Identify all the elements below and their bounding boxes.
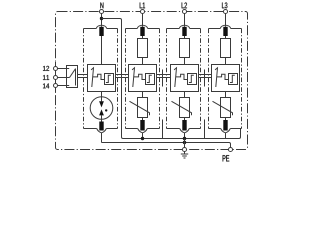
wire varistor to bottom electrode module 3 — [184, 118, 186, 121]
disconnector rect module 3 — [180, 39, 190, 58]
trigger step glyph — [147, 75, 152, 82]
spark gap top electrode arc 1 — [96, 25, 106, 28]
trigger step glyph — [230, 75, 235, 82]
module 2 (L1 varistor/spark-gap path) bottom edge segments — [126, 128, 160, 130]
module 2 (L1 varistor/spark-gap path) left side dash-dot — [125, 29, 127, 129]
terminal L3 — [223, 9, 227, 13]
module 4 (L3 varistor/spark-gap path) bottom edge segments — [209, 128, 242, 130]
bottom electrode bar module 3 — [182, 120, 186, 131]
left border solid segments between signalling terminals — [55, 62, 57, 92]
wire terminal 12 to contact box — [58, 68, 67, 70]
node earth-drop junction dot on PE line — [183, 141, 186, 144]
trigger circuit box 2 — [129, 65, 157, 92]
module 3 (L2 varistor/spark-gap path) bottom edge segments — [167, 128, 201, 130]
terminal 11 — [54, 76, 58, 80]
wire varistor to bottom electrode module 2 — [142, 118, 144, 121]
spark gap top electrode bar 1 — [99, 27, 103, 36]
label 14 — [43, 83, 49, 88]
wire varistor to bottom electrode module 4 — [225, 118, 227, 121]
wire disconnector to trigger box module 3 — [184, 58, 186, 65]
trigger circuit box 4 — [212, 65, 240, 92]
N-PE gap lower arrow stem — [101, 115, 103, 119]
trigger waveform symbol — [132, 68, 145, 87]
trigger pulse rect — [188, 74, 197, 85]
spark gap top electrode arc 4 — [220, 25, 230, 28]
varistor rect module 2 — [138, 98, 148, 118]
outer dash-dot enclosure border — [56, 12, 248, 150]
trigger waveform symbol — [215, 68, 228, 87]
wire disconnector to trigger box module 4 — [225, 58, 227, 65]
wire cup to N bus 4 — [225, 133, 227, 139]
module 4 (L3 varistor/spark-gap path) top edge segments — [209, 28, 242, 30]
wire electrode to disconnector module 3 — [184, 36, 186, 39]
trigger pulse rect — [229, 74, 238, 85]
bottom electrode bar module 4 — [223, 120, 227, 131]
terminal L1 — [140, 9, 144, 13]
wire trigger-link riser gap 3 lower — [204, 120, 206, 139]
bottom electrode cup 1 — [97, 129, 107, 133]
wire cup to N bus 3 — [184, 133, 186, 139]
label L1 — [140, 3, 145, 9]
trigger pulse rect — [105, 74, 114, 85]
trigger waveform symbol — [174, 68, 187, 87]
bottom electrode bar module 1 — [99, 122, 103, 131]
terminal 12 — [54, 67, 58, 71]
contact common bar — [75, 69, 77, 86]
trigger circuit box 1 — [88, 65, 116, 92]
wire trigger-link riser gap 2 upper — [162, 70, 164, 87]
label N — [100, 3, 103, 9]
wire trigger-link riser gap 3 upper — [204, 70, 206, 87]
wire L1 terminal drop — [142, 14, 144, 27]
spark gap top electrode arc 2 — [137, 25, 147, 28]
bottom electrode cup 4 — [221, 129, 231, 133]
varistor rect module 4 — [221, 98, 231, 118]
trigger link lines module 2 to module 3 — [157, 75, 171, 78]
wire N bus: right along top, down gap 1, along bottom, up to module 4 bottom edge — [102, 19, 241, 139]
changeover contact blade — [70, 69, 76, 78]
terminal earth — [182, 147, 186, 151]
wire module 1 cup to PE line — [101, 133, 103, 143]
earth symbol — [181, 152, 188, 159]
module 3 (L2 varistor/spark-gap path) right side dash-dot — [200, 29, 202, 129]
module 2 (L1 varistor/spark-gap path) top edge segments — [126, 28, 160, 30]
spark gap top electrode arc 3 — [179, 25, 189, 28]
wire disconnector to trigger box module 2 — [142, 58, 144, 65]
wire N terminal drop — [101, 14, 103, 27]
wire electrode to disconnector module 2 — [142, 36, 144, 39]
node L2 bottom N-bus junction dot — [183, 137, 186, 140]
wire trigger box to varistor module 2 — [142, 92, 144, 98]
label 12 — [43, 66, 49, 71]
bottom electrode cup 3 — [180, 129, 190, 133]
label L3 — [222, 2, 227, 8]
wire terminal 14 to contact box — [58, 85, 67, 87]
varistor diagonal module 2 — [130, 101, 150, 115]
varistor diagonal module 3 — [172, 101, 192, 115]
trigger link lines module 1 to module 2 — [116, 75, 129, 78]
module 4 (L3 varistor/spark-gap path) right side dash-dot — [241, 29, 243, 129]
remote signalling changeover contact box K1 — [67, 66, 78, 88]
N-PE gap lower arrowhead (up) — [99, 109, 104, 115]
N-PE gap trigger dot — [105, 109, 107, 111]
wire PE line from module 1 cup to PE terminal — [102, 143, 231, 148]
trigger waveform symbol — [91, 68, 104, 87]
trigger step glyph — [189, 75, 194, 82]
spark gap top electrode bar 4 — [223, 27, 227, 36]
varistor diagonal module 4 — [213, 101, 233, 115]
wire trigger box to varistor module 3 — [184, 92, 186, 98]
wire trigger-link riser gap 2 lower — [162, 120, 164, 139]
spark gap top electrode bar 2 — [140, 27, 144, 36]
wire electrode to disconnector module 4 — [225, 36, 227, 39]
trigger step glyph — [106, 75, 111, 82]
trigger link lines module 3 to module 4 — [199, 75, 212, 78]
module 4 (L3 varistor/spark-gap path) left side dash-dot — [208, 29, 210, 129]
module 3 (L2 varistor/spark-gap path) top edge segments — [167, 28, 201, 30]
trigger circuit box 3 — [171, 65, 199, 92]
wire terminal 11 to contact box — [58, 77, 67, 79]
node L1 bottom N-bus junction dot — [141, 137, 144, 140]
wire electrode to trigger box module 1 — [101, 36, 103, 65]
varistor rect module 3 — [180, 98, 190, 118]
wire cup to N bus 2 — [142, 133, 144, 139]
label L2 — [182, 2, 187, 8]
terminal 14 — [54, 84, 58, 88]
wire trigger box to N-PE gap circle — [101, 92, 103, 97]
module 1 (N-PE spark gap path) bottom edge segments — [84, 128, 118, 130]
N-PE gap upper arrowhead (down) — [99, 101, 104, 107]
wire L3 terminal drop — [225, 14, 227, 27]
module 1 (N-PE spark gap path) left side dash-dot — [83, 29, 85, 129]
label PE — [223, 155, 230, 161]
label 11 — [43, 75, 49, 80]
wire trigger box to varistor module 4 — [225, 92, 227, 98]
module 1 (N-PE spark gap path) top edge segments — [84, 28, 118, 30]
module 1 (N-PE spark gap path) right side dash-dot — [117, 29, 119, 129]
terminal N — [99, 9, 103, 13]
node N junction dot — [100, 17, 103, 20]
trigger pulse rect — [146, 74, 155, 85]
module 2 (L1 varistor/spark-gap path) right side dash-dot — [159, 29, 161, 129]
bottom electrode bar module 2 — [140, 120, 144, 131]
bottom electrode cup 2 — [138, 129, 148, 133]
spark gap top electrode bar 3 — [182, 27, 186, 36]
trigger link lines relay box to module 1 — [78, 75, 88, 78]
terminal PE — [228, 147, 232, 151]
wire L2 terminal drop — [184, 14, 186, 27]
N-PE gap upper arrow stem — [101, 97, 103, 102]
wire circle to bottom electrode module 1 — [101, 119, 103, 121]
module 3 (L2 varistor/spark-gap path) left side dash-dot — [166, 29, 168, 129]
disconnector rect module 2 — [138, 39, 148, 58]
N-PE gap circle element — [90, 97, 113, 120]
wire earth drop from L2 column to earth terminal — [184, 139, 186, 148]
contact stubs inside box — [67, 69, 70, 86]
terminal L2 — [182, 9, 186, 13]
disconnector rect module 4 — [221, 39, 231, 58]
